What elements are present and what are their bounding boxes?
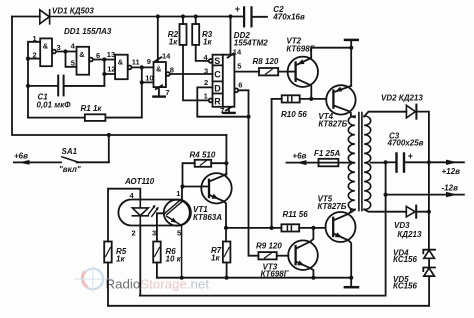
opto pin4 wire [108, 189, 140, 242]
svg-text:6: 6 [238, 81, 242, 90]
transistor VT1 [201, 173, 231, 203]
wire DD2 pin14 [228, 17, 234, 58]
logic gate DD1.2 [77, 47, 90, 75]
terminal +6v arrow left [14, 161, 61, 163]
opto emitter [167, 217, 182, 278]
svg-text:КС156: КС156 [393, 282, 417, 291]
svg-text:F1 25А: F1 25А [314, 149, 340, 158]
wire left rail [12, 17, 226, 136]
svg-text:8: 8 [170, 65, 174, 74]
logic gate DD1.1 [40, 38, 52, 66]
svg-text:5: 5 [71, 59, 75, 68]
svg-text:1к: 1к [116, 255, 125, 264]
wire DD1 pin1 [28, 42, 40, 118]
resistor R2 [182, 17, 184, 25]
svg-text:1: 1 [204, 91, 208, 100]
svg-text:КТ698Г: КТ698Г [261, 269, 290, 278]
transistor VT3 [288, 240, 318, 270]
flip-flop DD2 box [213, 55, 235, 107]
svg-text:C: C [214, 70, 221, 80]
wire common column [140, 162, 386, 295]
terminal +12v arrow [429, 161, 464, 163]
opto pin3 wire [157, 213, 164, 241]
svg-text:VD1 КД503: VD1 КД503 [52, 7, 94, 16]
zener VD5 [428, 259, 430, 268]
svg-text:&: & [118, 58, 124, 67]
svg-text:КТ827Б: КТ827Б [318, 202, 347, 211]
svg-text:1: 1 [176, 189, 180, 198]
wire gate2 pin5 loop [66, 52, 77, 67]
svg-text:DD1 155ЛА3: DD1 155ЛА3 [64, 27, 112, 36]
svg-text:R9 120: R9 120 [256, 241, 282, 250]
wire DD2 pin5 out [234, 71, 259, 73]
svg-text:7: 7 [165, 88, 169, 97]
watermark logo [75, 266, 210, 294]
diode VD3 [406, 206, 415, 217]
svg-text:1: 1 [33, 34, 37, 43]
capacitor C1 [28, 85, 57, 87]
svg-text:+6в: +6в [292, 151, 306, 160]
svg-text:2: 2 [33, 51, 37, 60]
svg-text:&: & [156, 65, 162, 74]
svg-text:R1 1к: R1 1к [81, 104, 103, 113]
svg-text:11: 11 [132, 57, 140, 66]
svg-text:R: R [214, 96, 221, 106]
chassis bar top [350, 40, 352, 47]
svg-text:КД213: КД213 [397, 230, 422, 239]
terminal -12v arrow [386, 194, 464, 196]
wire top rail to C2 [158, 16, 243, 18]
transistor VT2 [288, 57, 318, 87]
common pin7 DD1 [156, 85, 162, 96]
switch SA1 lever [62, 157, 77, 162]
resistor R6 [153, 242, 161, 263]
svg-text:13: 13 [107, 50, 115, 59]
svg-text:-12в: -12в [442, 184, 459, 193]
svg-text:RadioStorage.net: RadioStorage.net [106, 277, 210, 292]
zener VD4 [428, 212, 430, 250]
svg-text:VD3: VD3 [394, 221, 410, 230]
svg-text:D: D [214, 83, 221, 93]
opto transistor collector double line [165, 199, 183, 215]
resistor R3 [195, 17, 197, 25]
common pin7 DD2 [226, 107, 232, 113]
svg-text:+12в: +12в [442, 167, 461, 176]
svg-text:4: 4 [71, 42, 76, 51]
fuse F1 [287, 162, 319, 164]
logic gate DD1.4 [154, 62, 166, 87]
wire gate3 pin12 loop to C1 [65, 60, 116, 86]
transistor VT5 [326, 212, 356, 242]
svg-text:1554ТМ2: 1554ТМ2 [234, 39, 268, 48]
node dot pin3-4 [63, 49, 67, 53]
opto photon arrows [149, 207, 158, 217]
svg-text:3: 3 [57, 43, 61, 52]
svg-text:5: 5 [177, 228, 181, 237]
svg-text:&: & [43, 42, 49, 51]
node dot C1 left [26, 84, 30, 88]
svg-text:3: 3 [204, 67, 208, 76]
svg-text:10: 10 [145, 74, 153, 83]
svg-text:&: & [79, 50, 85, 59]
logic gate DD1.3 [115, 55, 128, 79]
opto pin1 wire [181, 187, 183, 201]
node dot VT5 base [311, 226, 315, 230]
wire gate4 pin10 loop to R1 [105, 67, 153, 117]
wire secondary mid tap [371, 162, 386, 164]
transformer T1 secondary [364, 116, 371, 210]
ground symbol [349, 276, 353, 280]
svg-text:10 к: 10 к [166, 255, 182, 264]
opto LED [132, 200, 148, 226]
svg-text:2: 2 [204, 78, 208, 87]
opto phototransistor circle [164, 200, 190, 226]
svg-text:14: 14 [233, 48, 242, 57]
node dot VT1 base [180, 184, 184, 188]
DD2 R input bubble [209, 99, 213, 103]
node dot SA1 riser [107, 133, 111, 137]
wire secondary bottom [364, 209, 406, 211]
svg-text:КТ863А: КТ863А [193, 213, 222, 222]
resistor R11 [226, 227, 281, 229]
wire SA1 to riser [77, 161, 109, 163]
svg-text:VD2 КД213: VD2 КД213 [381, 94, 423, 103]
wire DD2 D input feedback [197, 87, 248, 116]
resistor R4 [195, 160, 212, 167]
capacitor C3 [386, 161, 396, 163]
node dot pin11-9 [140, 65, 144, 69]
svg-text:КТ698Г: КТ698Г [286, 44, 315, 53]
transformer core [359, 113, 362, 211]
wire secondary top [364, 112, 406, 117]
wire VT1 collector column [225, 135, 227, 175]
svg-text:7: 7 [220, 106, 224, 115]
svg-text:КТ827Б: КТ827Б [318, 119, 347, 128]
resistor R1 [28, 117, 85, 119]
transformer T1 primary [351, 115, 355, 118]
svg-text:SA1: SA1 [62, 147, 78, 156]
svg-text:+6в: +6в [14, 152, 28, 161]
diode VD2 [406, 105, 415, 118]
resistor R10 [272, 98, 282, 100]
svg-text:6: 6 [96, 51, 100, 60]
svg-text:5: 5 [237, 62, 241, 71]
resistor R8 [259, 68, 278, 75]
opto pin2 wire [139, 226, 141, 296]
wire DD1 pin14 [155, 17, 161, 63]
wire DD1 pin2 [28, 58, 40, 60]
DD2 S input bubble [209, 59, 213, 63]
node dot R4 right [224, 161, 228, 165]
transistor VT4 [326, 85, 355, 114]
svg-text:1к: 1к [203, 38, 212, 47]
svg-text:14: 14 [162, 52, 171, 61]
svg-text:R11 56: R11 56 [283, 210, 309, 219]
svg-text:2: 2 [132, 229, 136, 238]
wire ground rail [157, 277, 351, 279]
svg-text:12: 12 [107, 65, 115, 74]
wire top rail left [12, 16, 40, 18]
svg-text:"вкл": "вкл" [59, 165, 81, 174]
svg-text:R8 120: R8 120 [253, 57, 279, 66]
optocoupler AOT110 body [118, 200, 190, 226]
svg-text:R4 510: R4 510 [190, 151, 216, 160]
svg-text:4700х25в: 4700х25в [387, 138, 424, 147]
svg-text:АОТ110: АОТ110 [124, 177, 155, 186]
wire gate4 out to DD2 C [170, 73, 213, 75]
svg-text:3: 3 [152, 229, 156, 238]
svg-text:КС156: КС156 [393, 255, 417, 264]
svg-text:470х16в: 470х16в [272, 13, 305, 22]
svg-text:+: + [408, 151, 413, 161]
resistor R9 [258, 252, 276, 259]
svg-text:0,01 мкФ: 0,01 мкФ [37, 101, 72, 110]
node dot pin6-13 [102, 57, 106, 61]
svg-text:9: 9 [147, 57, 151, 66]
node dot pin2 [26, 57, 30, 61]
wire DD2 pin6 to R9 [234, 88, 238, 92]
wire SA1 riser [108, 135, 110, 162]
wire R10 left riser [271, 99, 273, 228]
svg-text:1к: 1к [211, 254, 220, 263]
svg-text:1к: 1к [169, 38, 178, 47]
wire zener return rail [108, 276, 429, 306]
diode VD1 [40, 10, 158, 24]
resistor R5 [104, 242, 112, 263]
svg-text:+: + [235, 4, 240, 14]
resistor R7 [223, 242, 231, 263]
svg-text:4: 4 [130, 191, 135, 200]
wire VT4 emitter column [350, 48, 352, 86]
capacitor C2 [243, 6, 245, 27]
svg-text:R10 56: R10 56 [281, 110, 307, 119]
svg-text:S: S [214, 56, 220, 66]
